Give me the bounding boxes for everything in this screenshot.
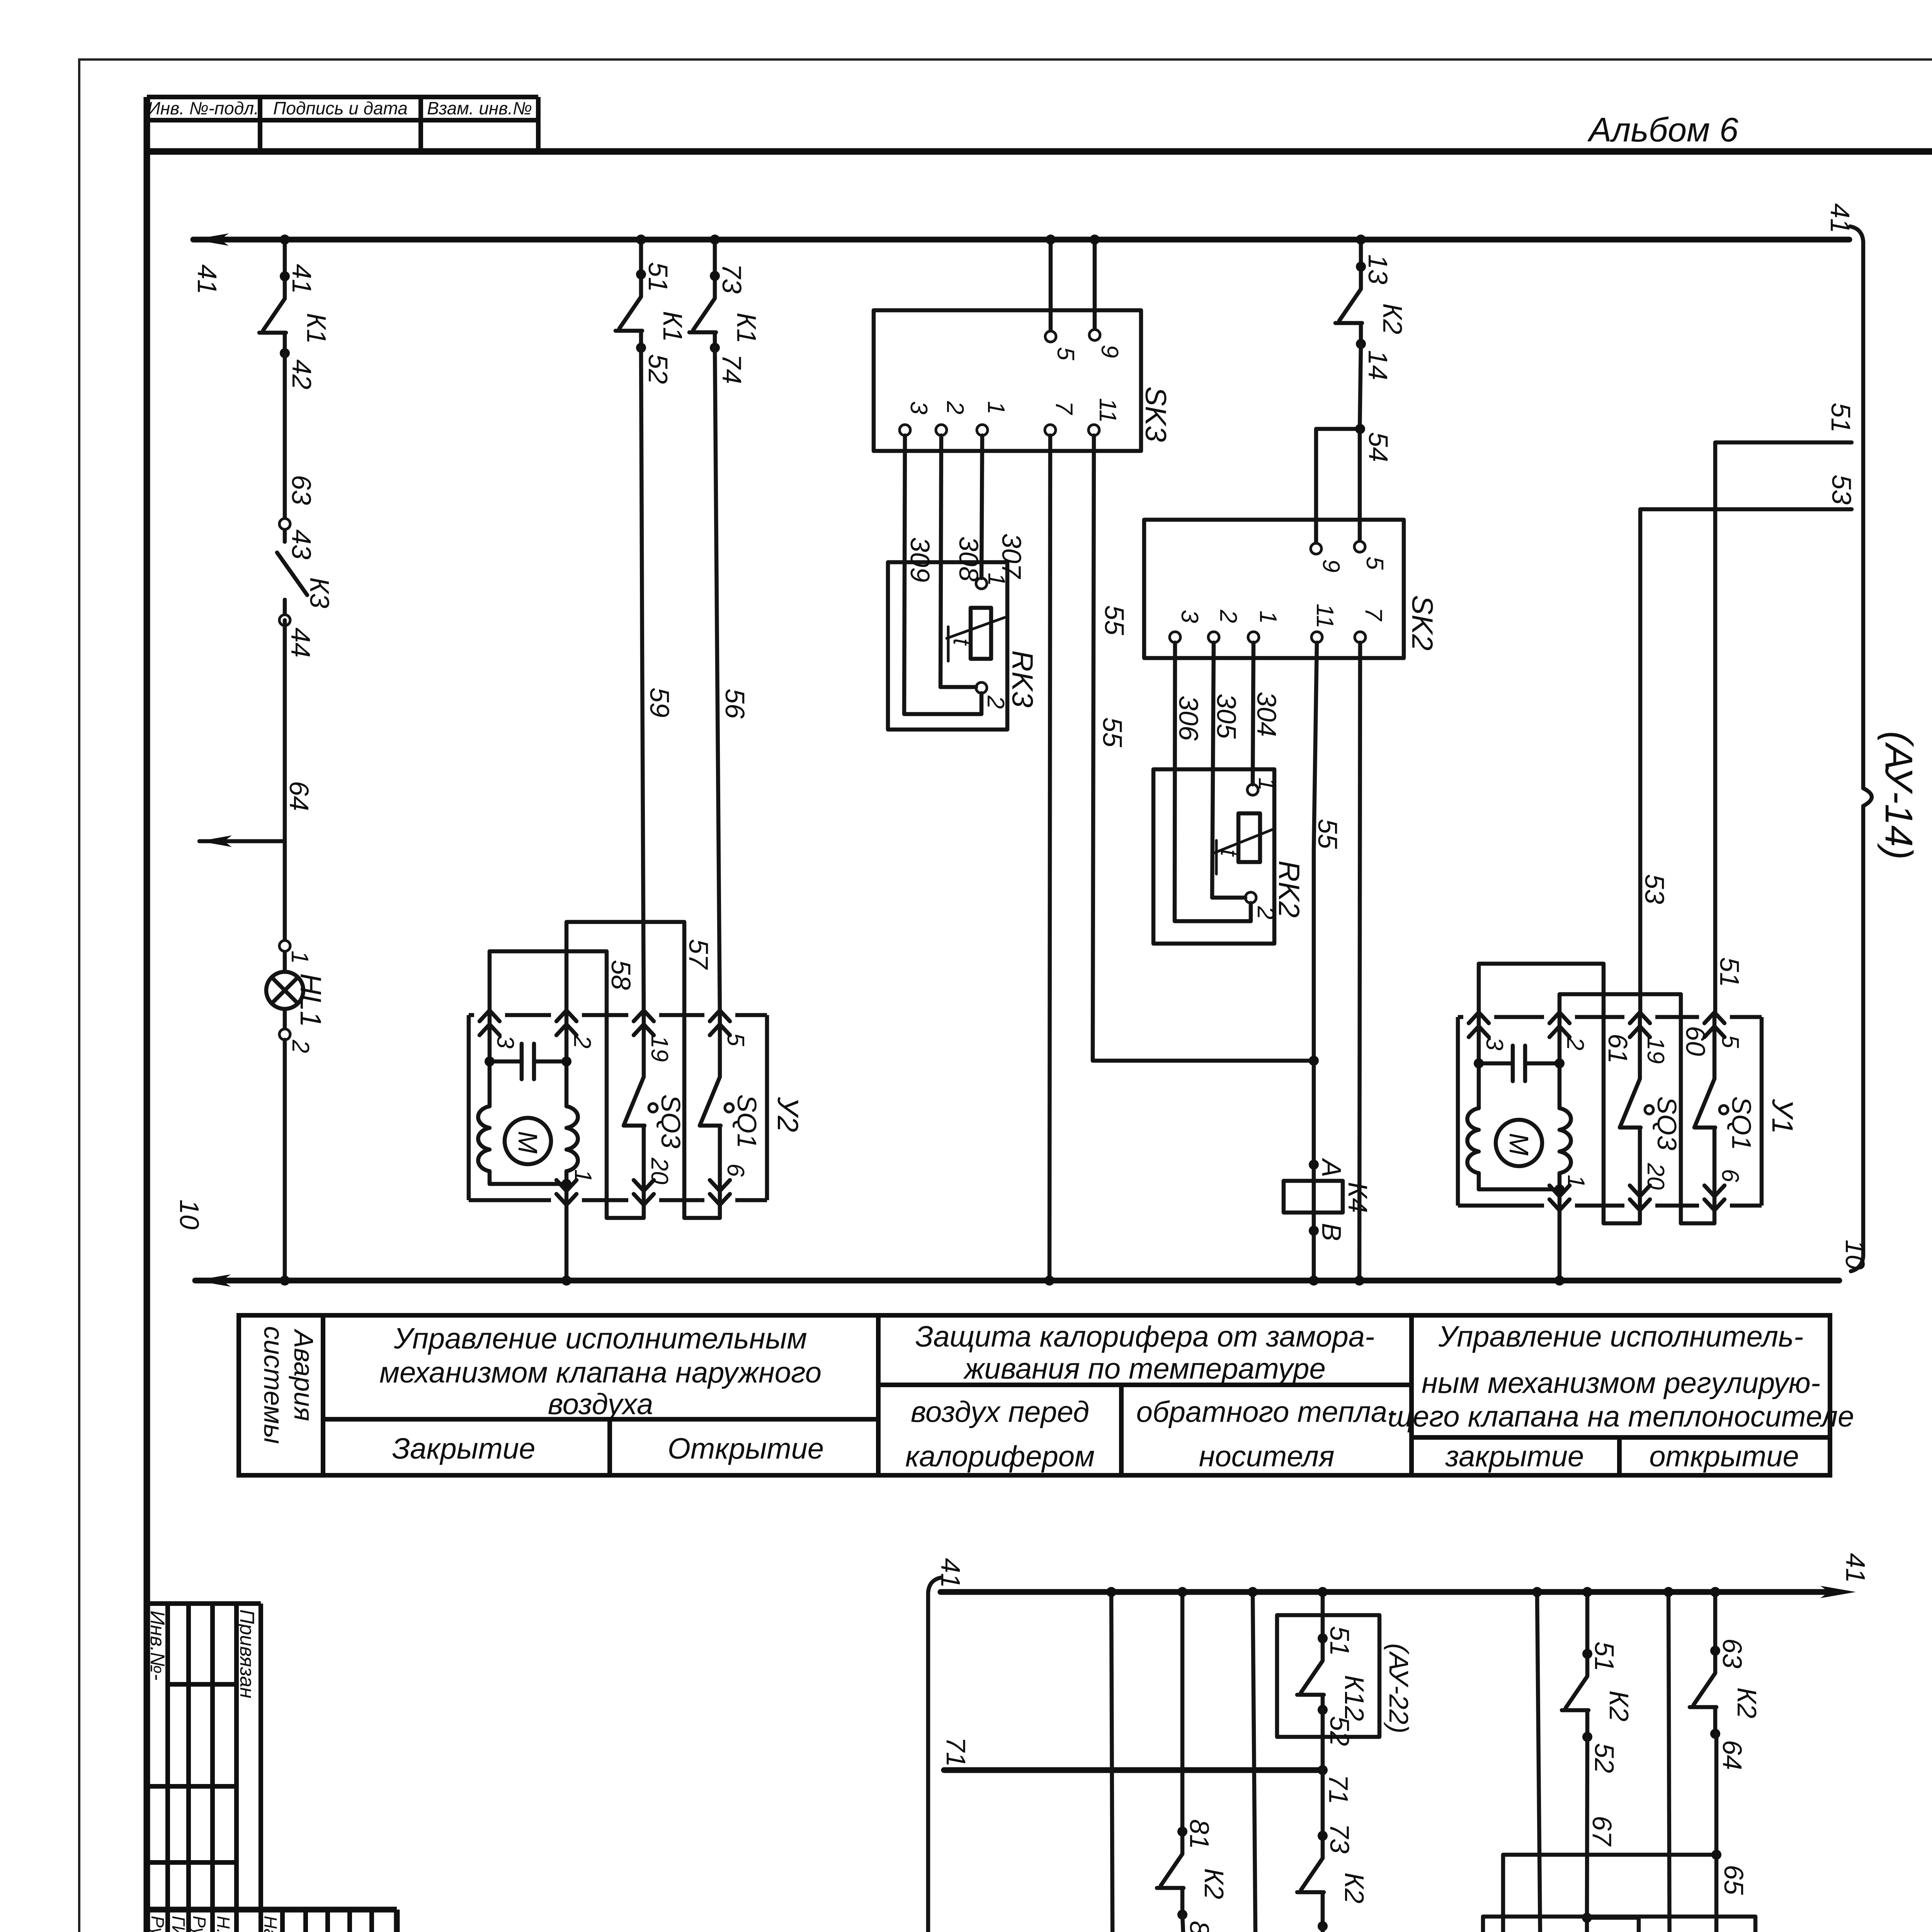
- svg-text:41: 41: [1840, 1553, 1871, 1583]
- svg-text:81: 81: [1184, 1819, 1214, 1849]
- temperature sensor RK3: [888, 435, 1039, 730]
- svg-text:20: 20: [646, 1157, 673, 1184]
- svg-text:52: 52: [643, 354, 673, 384]
- wire 55 from SK3 pin11: [1093, 435, 1314, 1061]
- wire bus41 to K2: [1359, 240, 1363, 267]
- svg-text:воздуха: воздуха: [548, 1388, 653, 1421]
- svg-text:SQ3: SQ3: [656, 1094, 686, 1148]
- wire bus41 to SB4 pin13: [1111, 1592, 1113, 1932]
- title block signature grid: [147, 1910, 397, 1932]
- svg-text:20: 20: [1642, 1163, 1669, 1190]
- svg-text:53: 53: [1639, 874, 1670, 904]
- limit switch SQ3: [1620, 1017, 1682, 1206]
- svg-text:10: 10: [174, 1199, 204, 1230]
- motor M of У2: [478, 1106, 490, 1171]
- svg-text:2: 2: [287, 1039, 314, 1053]
- bus 10 bottom: [174, 1199, 1839, 1287]
- svg-text:1: 1: [286, 951, 313, 964]
- temperature sensor RK2: [1153, 643, 1305, 944]
- svg-text:1: 1: [1255, 611, 1281, 624]
- wire 63: [283, 353, 287, 524]
- svg-text:307: 307: [997, 533, 1027, 580]
- lamp HL1: [266, 940, 327, 1286]
- wire 305: [1212, 643, 1245, 898]
- svg-text:55: 55: [1097, 717, 1128, 748]
- svg-text:Авария: Авария: [289, 1328, 319, 1421]
- svg-text:Управление исполнительным: Управление исполнительным: [393, 1322, 807, 1355]
- svg-text:носителя: носителя: [1199, 1440, 1335, 1473]
- svg-text:5: 5: [1717, 1035, 1743, 1048]
- svg-text:73: 73: [1325, 1823, 1355, 1854]
- svg-text:системы: системы: [259, 1326, 289, 1444]
- svg-text:2: 2: [569, 1035, 595, 1048]
- wire SK2 pin7 to bus10: [1359, 643, 1360, 1281]
- svg-text:3: 3: [1176, 610, 1203, 623]
- svg-text:обратного тепла-: обратного тепла-: [1136, 1396, 1397, 1429]
- svg-text:Инв.№-: Инв.№-: [146, 1611, 168, 1680]
- svg-text:42: 42: [287, 359, 317, 389]
- svg-text:К2: К2: [1732, 1687, 1762, 1718]
- svg-text:6: 6: [722, 1163, 749, 1177]
- svg-text:41: 41: [287, 264, 317, 294]
- svg-text:SK3: SK3: [1139, 386, 1172, 442]
- wire bus41 to K1(51-52): [639, 240, 643, 274]
- node (АУ-14) boundary line right: [1850, 226, 1920, 1271]
- svg-text:1: 1: [1253, 777, 1280, 791]
- svg-text:64: 64: [1717, 1740, 1747, 1770]
- bus 41 lower: [935, 1553, 1871, 1598]
- svg-text:52: 52: [1325, 1716, 1355, 1746]
- svg-text:41: 41: [1825, 203, 1855, 233]
- wire 72 junction: [1093, 1926, 1323, 1932]
- svg-text:Открытие: Открытие: [668, 1432, 824, 1465]
- svg-text:19: 19: [646, 1035, 673, 1062]
- svg-text:К2: К2: [1378, 303, 1408, 334]
- wire bus41 to K2(63-64) lower: [1713, 1592, 1718, 1651]
- svg-text:82: 82: [1184, 1921, 1214, 1932]
- wire 307: [981, 435, 982, 578]
- wire jog pin3 of У2: [490, 951, 644, 1218]
- wire K12-52 to bus71: [1321, 1710, 1325, 1770]
- svg-text:71: 71: [1323, 1774, 1354, 1804]
- svg-text:(АУ-14): (АУ-14): [1877, 731, 1920, 860]
- wire 51 branch: [1715, 442, 1852, 1015]
- wire 59 to У2 pin19: [641, 348, 644, 1015]
- svg-text:309: 309: [905, 537, 935, 582]
- motor M of У1: [1467, 1108, 1479, 1173]
- svg-text:А: А: [1316, 1158, 1347, 1177]
- svg-text:(АУ-22): (АУ-22): [1384, 1643, 1414, 1733]
- svg-text:71: 71: [941, 1737, 971, 1767]
- svg-text:SQ1: SQ1: [732, 1094, 762, 1148]
- svg-text:11: 11: [1094, 398, 1121, 423]
- wire bus41 to K1(73-74): [713, 240, 717, 276]
- svg-text:51: 51: [1714, 957, 1745, 987]
- wire 65 branch: [1503, 1734, 1716, 1932]
- svg-text:73: 73: [717, 264, 747, 294]
- svg-text:открытие: открытие: [1649, 1440, 1799, 1473]
- arrow branch left: [199, 839, 285, 844]
- svg-text:14: 14: [1363, 350, 1393, 380]
- title block upper narrow table Инв.№/Привязан: [146, 1604, 261, 1910]
- svg-text:305: 305: [1211, 694, 1242, 739]
- svg-text:К1: К1: [731, 313, 762, 344]
- svg-text:11: 11: [1311, 604, 1338, 628]
- svg-text:59: 59: [645, 687, 675, 718]
- svg-text:61: 61: [1603, 1034, 1633, 1064]
- svg-text:65: 65: [1719, 1865, 1749, 1895]
- svg-text:К2: К2: [1604, 1690, 1634, 1721]
- svg-text:ным механизмом регулирую-: ным механизмом регулирую-: [1422, 1367, 1820, 1400]
- svg-text:64: 64: [284, 781, 314, 811]
- svg-text:43: 43: [286, 529, 316, 560]
- svg-text:51: 51: [1325, 1626, 1355, 1656]
- svg-text:44: 44: [286, 628, 316, 658]
- wire jog pin3 of У1: [1479, 964, 1640, 1223]
- svg-text:механизмом клапана наружно: механизмом клапана наружного: [379, 1356, 821, 1389]
- wire 82 jog to pin34 stub: [1182, 1915, 1256, 1932]
- svg-text:Рук.гр.: Рук.гр.: [148, 1916, 168, 1932]
- wire bus41 to K2(51-52) lower: [1585, 1592, 1590, 1654]
- limit switch SQ1: [1694, 1017, 1757, 1206]
- svg-text:2: 2: [942, 401, 968, 414]
- wire 309: [904, 435, 981, 714]
- thermostat SK2: [1144, 520, 1439, 658]
- wire 56 to У2 pin5: [715, 348, 720, 1015]
- svg-text:9: 9: [1096, 345, 1123, 358]
- wire bus41 to K1: [283, 240, 287, 276]
- wire SK3 pin7 to bus10: [1049, 435, 1050, 1281]
- svg-text:В: В: [1316, 1223, 1347, 1241]
- svg-text:К1: К1: [301, 313, 332, 344]
- svg-text:60: 60: [1680, 1026, 1711, 1056]
- contact К2 51-52: [1562, 1641, 1634, 1773]
- svg-text:2: 2: [1562, 1037, 1588, 1050]
- svg-text:М: М: [1504, 1133, 1534, 1156]
- capacitor У1: [1479, 1017, 1560, 1108]
- svg-text:Закрытие: Закрытие: [392, 1432, 536, 1465]
- svg-text:К2: К2: [1199, 1868, 1229, 1899]
- svg-text:53: 53: [1827, 474, 1857, 505]
- svg-text:7: 7: [1360, 607, 1387, 622]
- svg-text:56: 56: [720, 689, 750, 719]
- svg-text:t: t: [948, 638, 975, 646]
- contact К2 63-64: [1690, 1638, 1762, 1770]
- wire bus41 to SB3 pin33: [1668, 1592, 1670, 1932]
- svg-text:воздух перед: воздух перед: [911, 1396, 1089, 1429]
- wire bus41 to K2(81-82): [1180, 1592, 1185, 1832]
- svg-text:К1: К1: [658, 311, 688, 342]
- wire 308: [940, 435, 976, 687]
- svg-text:Привязан: Привязан: [236, 1609, 258, 1698]
- svg-text:SQ3: SQ3: [1652, 1096, 1682, 1150]
- svg-text:308: 308: [954, 536, 984, 582]
- svg-text:Взам. инв.№: Взам. инв.№: [427, 98, 532, 118]
- svg-text:3: 3: [905, 401, 932, 414]
- svg-text:закрытие: закрытие: [1445, 1440, 1584, 1473]
- svg-text:К12: К12: [1339, 1675, 1369, 1721]
- svg-text:Инв. №-подл.: Инв. №-подл.: [148, 98, 259, 118]
- svg-text:ГИП: ГИП: [168, 1916, 189, 1932]
- wire bus41 to SB4 pin33: [1253, 1592, 1256, 1932]
- svg-text:304: 304: [1252, 692, 1282, 737]
- wire 64: [283, 620, 287, 946]
- svg-text:Н.контр: Н.контр: [213, 1916, 233, 1932]
- svg-text:HL1: HL1: [294, 973, 327, 1027]
- contact К2 13-14: [1335, 254, 1408, 380]
- contact К12 51-52: [1297, 1626, 1369, 1746]
- svg-text:63: 63: [1717, 1638, 1747, 1668]
- wire bus41 to SB3 pin13: [1537, 1592, 1541, 1932]
- svg-text:1: 1: [983, 401, 1009, 414]
- middle description table: [239, 1315, 1854, 1475]
- svg-text:9: 9: [1318, 559, 1344, 572]
- svg-text:3: 3: [492, 1035, 519, 1048]
- limit switch SQ3: [624, 1015, 686, 1200]
- svg-text:51: 51: [1589, 1641, 1619, 1672]
- svg-text:55: 55: [1099, 605, 1129, 636]
- svg-text:7: 7: [1051, 401, 1077, 415]
- svg-text:6: 6: [1717, 1169, 1743, 1182]
- svg-text:калорифером: калорифером: [905, 1440, 1095, 1473]
- svg-text:К3: К3: [304, 577, 335, 608]
- svg-text:58: 58: [606, 960, 636, 990]
- wire pin1 У2 to bus: [565, 1200, 569, 1281]
- wire 306: [1175, 643, 1251, 921]
- contact К2 81-82: [1157, 1819, 1229, 1932]
- svg-text:10: 10: [1840, 1240, 1870, 1270]
- svg-text:У2: У2: [771, 1097, 804, 1132]
- svg-text:5: 5: [1052, 347, 1079, 361]
- svg-text:74: 74: [717, 354, 747, 384]
- svg-text:5: 5: [722, 1033, 749, 1046]
- wire 304: [1253, 643, 1253, 784]
- bus 71: [941, 1737, 1354, 1804]
- svg-text:RK2: RK2: [1272, 861, 1305, 918]
- wire bus71 to K2(73-74): [1321, 1770, 1325, 1836]
- svg-text:Управление исполнитель-: Управление исполнитель-: [1438, 1320, 1804, 1353]
- wire jog pin2 of У2: [566, 922, 720, 1218]
- svg-text:К2: К2: [1339, 1872, 1369, 1903]
- contact K3 43-44: [277, 519, 335, 658]
- svg-text:щего клапана на теплоносител: щего клапана на теплоносителе: [1388, 1400, 1854, 1433]
- svg-text:41: 41: [935, 1558, 966, 1588]
- node (АУ-16) boundary line left: [845, 1578, 940, 1932]
- pushbutton SB3: [1483, 1917, 1791, 1932]
- wire bus41 to K12: [1321, 1592, 1325, 1638]
- wire 67 junction: [1587, 1737, 1670, 1932]
- actuator module У1: [1458, 964, 1799, 1286]
- svg-text:М: М: [513, 1131, 543, 1154]
- svg-text:SQ1: SQ1: [1726, 1096, 1757, 1150]
- svg-text:2: 2: [982, 695, 1009, 709]
- svg-text:Подпись и дата: Подпись и дата: [273, 98, 408, 118]
- svg-text:2: 2: [1215, 609, 1242, 623]
- svg-text:t: t: [1216, 849, 1242, 857]
- svg-text:Альбом 6: Альбом 6: [1587, 111, 1738, 149]
- limit switch SQ1: [700, 1015, 762, 1200]
- svg-text:51: 51: [1826, 403, 1856, 433]
- actuator module У2: [469, 922, 804, 1286]
- relay coil K4: [1284, 1181, 1343, 1213]
- contact К1 41-42: [259, 264, 332, 389]
- svg-text:Защита калорифера от замора: Защита калорифера от замора-: [915, 1320, 1375, 1353]
- svg-text:1: 1: [570, 1169, 596, 1182]
- svg-text:Нач.отд.: Нач.отд.: [260, 1916, 281, 1932]
- wire pin1 У1 to bus: [1558, 1206, 1562, 1281]
- svg-text:13: 13: [1363, 254, 1393, 284]
- svg-text:52: 52: [1589, 1743, 1619, 1773]
- svg-text:3: 3: [1481, 1037, 1508, 1050]
- svg-text:Рук.сект: Рук.сект: [189, 1916, 209, 1932]
- svg-text:SK2: SK2: [1406, 595, 1439, 651]
- svg-text:19: 19: [1642, 1037, 1669, 1064]
- svg-text:41: 41: [192, 264, 222, 294]
- svg-text:5: 5: [1361, 556, 1388, 570]
- contact К1 51-52: [616, 262, 688, 384]
- svg-text:63: 63: [286, 475, 316, 505]
- bus 41 top: [192, 203, 1855, 294]
- svg-text:51: 51: [643, 262, 673, 292]
- relay box K12: [1277, 1615, 1379, 1737]
- wire jog pin2 of У1: [1560, 994, 1714, 1223]
- frame header table top-left (above frame): [147, 97, 538, 151]
- capacitor У2: [490, 1015, 566, 1106]
- svg-text:306: 306: [1173, 696, 1204, 741]
- wire 55 SK2 pin11 down through K4: [1314, 643, 1317, 1281]
- svg-text:55: 55: [1313, 819, 1343, 849]
- svg-text:живания по температуре: живания по температуре: [963, 1352, 1325, 1385]
- svg-text:1: 1: [1563, 1175, 1589, 1188]
- svg-text:54: 54: [1363, 432, 1393, 462]
- thermostat SK3: [874, 235, 1172, 451]
- svg-text:57: 57: [684, 939, 714, 970]
- contact К1 73-74: [689, 264, 762, 384]
- wire 54 junction to SK2: [1316, 344, 1361, 543]
- svg-text:У1: У1: [1766, 1099, 1799, 1134]
- wire 53 branch: [1640, 509, 1852, 1015]
- contact К2 73-74: [1297, 1823, 1369, 1932]
- svg-text:RK3: RK3: [1006, 650, 1039, 707]
- svg-text:67: 67: [1587, 1816, 1617, 1847]
